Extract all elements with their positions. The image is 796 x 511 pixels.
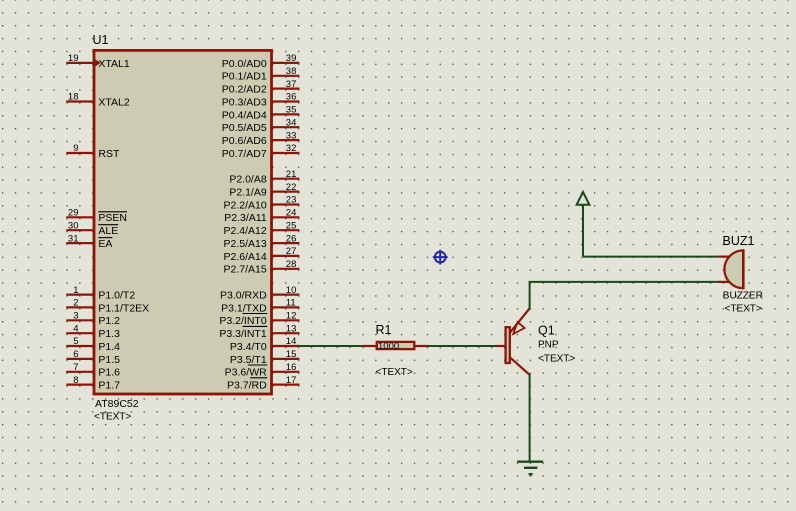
U1 pin 35 (P0.4/AD4) [222, 105, 300, 122]
svg-text:29: 29 [68, 208, 79, 219]
wire: Q1 emitter up to buzzer net corner [529, 282, 531, 310]
svg-text:P3.3/INT1: P3.3/INT1 [219, 328, 266, 340]
U1 pin 4 (P1.3) [66, 323, 120, 340]
svg-text:1000: 1000 [378, 341, 399, 352]
svg-text:BUZ1: BUZ1 [723, 234, 755, 248]
wire: U1 P3.4/T0 to R1 left [299, 345, 364, 347]
schematic origin marker (blue crosshair) [433, 250, 448, 265]
U1 pin 14 (P3.4/T0) [230, 336, 299, 353]
U1 pin 8 (P1.7) [66, 375, 120, 392]
svg-text:AT89C52: AT89C52 [95, 398, 139, 410]
svg-text:P2.1/A9: P2.1/A9 [229, 187, 267, 199]
U1 pin 17 (P3.7/RD) [227, 375, 299, 392]
svg-text:P2.3/A11: P2.3/A11 [224, 212, 267, 224]
svg-text:P2.0/A8: P2.0/A8 [229, 174, 267, 186]
svg-text:31: 31 [68, 233, 79, 244]
svg-text:P2.5/A13: P2.5/A13 [223, 238, 266, 250]
Q1 property text placeholder [538, 354, 575, 365]
svg-text:9: 9 [73, 143, 78, 154]
svg-text:5: 5 [73, 336, 78, 347]
U1 pin 23 (P2.2/A10) [223, 195, 299, 212]
svg-text:P1.1/T2EX: P1.1/T2EX [98, 302, 149, 314]
Q1 designator label [538, 324, 555, 338]
wire: Q1 collector down to ground [529, 374, 531, 462]
U1 pin 22 (P2.1/A9) [229, 182, 299, 199]
svg-text:P0.4/AD4: P0.4/AD4 [222, 109, 267, 121]
svg-text:39: 39 [286, 53, 297, 64]
U1 pin 9 (RST) [66, 143, 120, 160]
svg-text:XTAL1: XTAL1 [98, 58, 129, 70]
svg-text:P1.0/T2: P1.0/T2 [98, 290, 135, 302]
U1 pin 25 (P2.4/A12) [223, 220, 299, 237]
svg-text:26: 26 [286, 233, 297, 244]
svg-text:1: 1 [73, 285, 78, 296]
U1 pin 15 (P3.5/T1) [230, 349, 299, 366]
U1 pin 16 (P3.6/WR) [225, 362, 300, 379]
svg-text:P1.4: P1.4 [98, 341, 120, 353]
svg-text:11: 11 [286, 298, 296, 309]
svg-text:P1.2: P1.2 [98, 315, 120, 327]
svg-text:R1: R1 [376, 323, 392, 337]
svg-text:P3.2/INT0: P3.2/INT0 [219, 315, 266, 327]
svg-text:<TEXT>: <TEXT> [725, 304, 762, 315]
svg-text:U1: U1 [93, 33, 109, 47]
svg-text:4: 4 [73, 323, 78, 334]
svg-text:P3.7/RD: P3.7/RD [227, 380, 267, 392]
svg-text:34: 34 [286, 118, 297, 129]
svg-text:P3.0/RXD: P3.0/RXD [220, 290, 267, 302]
svg-text:P0.6/AD6: P0.6/AD6 [222, 135, 267, 147]
U1 pin 12 (P3.2/INT0) [219, 311, 299, 328]
svg-text:28: 28 [286, 259, 297, 270]
svg-text:P0.7/AD7: P0.7/AD7 [222, 148, 267, 160]
svg-text:23: 23 [286, 195, 297, 206]
Q1 emitter pin with PNP arrow [510, 308, 530, 334]
svg-text:<TEXT>: <TEXT> [94, 412, 131, 423]
U1 pin 38 (P0.1/AD1) [222, 66, 300, 83]
U1 designator label [93, 33, 109, 47]
svg-text:P3.1/TXD: P3.1/TXD [221, 302, 267, 314]
svg-text:10: 10 [286, 285, 297, 296]
svg-text:P2.7/A15: P2.7/A15 [223, 264, 266, 276]
wire: power symbol to BUZ1 top pin [583, 256, 720, 258]
U1 pin 27 (P2.6/A14) [223, 246, 299, 263]
svg-text:P3.5/T1: P3.5/T1 [230, 354, 267, 366]
Q1 collector pin [510, 357, 530, 374]
svg-text:PNP: PNP [538, 340, 559, 351]
ground symbol [517, 462, 543, 475]
svg-text:P0.0/AD0: P0.0/AD0 [222, 58, 267, 70]
svg-text:30: 30 [68, 220, 79, 231]
svg-text:8: 8 [73, 375, 78, 386]
svg-text:17: 17 [286, 375, 297, 386]
svg-text:P0.1/AD1: P0.1/AD1 [222, 71, 267, 83]
svg-text:7: 7 [73, 362, 78, 373]
resistor R1 body [363, 342, 428, 349]
R1 designator label [376, 323, 392, 337]
svg-text:15: 15 [286, 349, 297, 360]
svg-text:33: 33 [286, 130, 297, 141]
U1 value label AT89C52 [95, 398, 139, 410]
svg-text:2: 2 [73, 298, 78, 309]
U1 pin 18 (XTAL2) [66, 92, 130, 109]
svg-text:37: 37 [286, 79, 297, 90]
svg-text:12: 12 [286, 311, 297, 322]
svg-text:19: 19 [68, 53, 79, 64]
svg-text:P1.3: P1.3 [98, 328, 120, 340]
U1 pin 29 (PSEN) [66, 208, 127, 225]
svg-text:36: 36 [286, 92, 297, 103]
R1 value 1000 [378, 341, 399, 352]
U1 pin 33 (P0.6/AD6) [222, 130, 300, 147]
svg-text:P1.7: P1.7 [98, 380, 120, 392]
svg-text:24: 24 [286, 208, 297, 219]
buzzer BUZ1 body [719, 249, 744, 289]
R1 property text placeholder [376, 367, 413, 378]
svg-text:21: 21 [286, 169, 297, 180]
U1 pin 26 (P2.5/A13) [223, 233, 299, 250]
U1 pin 37 (P0.2/AD2) [222, 79, 300, 96]
wire: R1 right to Q1 base [428, 345, 498, 347]
svg-text:<TEXT>: <TEXT> [376, 367, 413, 378]
svg-text:BUZZER: BUZZER [723, 291, 763, 302]
U1 pin 30 (ALE) [66, 220, 118, 237]
U1 pin 24 (P2.3/A11) [224, 208, 299, 225]
svg-text:13: 13 [286, 323, 297, 334]
IC U1 AT89C52 body [94, 50, 272, 394]
U1 property text placeholder [94, 412, 131, 423]
svg-text:ALE: ALE [98, 225, 118, 237]
U1 pin 10 (P3.0/RXD) [220, 285, 299, 302]
svg-text:P2.2/A10: P2.2/A10 [223, 199, 266, 211]
svg-text:18: 18 [68, 92, 79, 103]
svg-text:PSEN: PSEN [98, 212, 127, 224]
svg-text:25: 25 [286, 220, 297, 231]
U1 pin 21 (P2.0/A8) [229, 169, 299, 186]
U1 pin 6 (P1.5) [66, 349, 120, 366]
Q1 value PNP [538, 340, 559, 351]
svg-text:32: 32 [286, 143, 297, 154]
U1 pin 1 (P1.0/T2) [66, 285, 135, 302]
U1 pin 3 (P1.2) [66, 311, 120, 328]
svg-text:14: 14 [286, 336, 297, 347]
svg-text:3: 3 [73, 311, 78, 322]
svg-text:P0.2/AD2: P0.2/AD2 [222, 84, 267, 96]
svg-text:27: 27 [286, 246, 297, 257]
svg-text:16: 16 [286, 362, 297, 373]
svg-text:P3.6/WR: P3.6/WR [225, 367, 267, 379]
wire: horizontal to BUZ1 bottom pin [529, 281, 720, 283]
svg-text:Q1: Q1 [538, 324, 555, 338]
svg-text:P3.4/T0: P3.4/T0 [230, 341, 267, 353]
U1 pin 5 (P1.4) [66, 336, 120, 353]
transistor Q1 base bar [506, 327, 510, 363]
svg-text:22: 22 [286, 182, 297, 193]
power symbol (arrow up) [577, 192, 590, 257]
svg-text:<TEXT>: <TEXT> [538, 354, 575, 365]
U1 pin 19 (XTAL1) [66, 53, 130, 70]
U1 pin 39 (P0.0/AD0) [222, 53, 300, 70]
svg-text:P0.5/AD5: P0.5/AD5 [222, 122, 267, 134]
U1 pin 32 (P0.7/AD7) [222, 143, 300, 160]
U1 pin 7 (P1.6) [66, 362, 120, 379]
Q1 base pin [497, 345, 505, 347]
U1 pin 11 (P3.1/TXD) [221, 298, 299, 315]
svg-text:RST: RST [98, 148, 120, 160]
BUZ1 property text placeholder [725, 304, 762, 315]
svg-text:38: 38 [286, 66, 297, 77]
U1 pin 34 (P0.5/AD5) [222, 118, 300, 135]
U1 pin 2 (P1.1/T2EX) [66, 298, 149, 315]
U1 pin 28 (P2.7/A15) [223, 259, 299, 276]
svg-text:P1.6: P1.6 [98, 367, 120, 379]
U1 pin 13 (P3.3/INT1) [219, 323, 299, 340]
svg-text:P1.5: P1.5 [98, 354, 120, 366]
svg-text:P2.4/A12: P2.4/A12 [223, 225, 266, 237]
svg-text:EA: EA [98, 238, 112, 250]
U1 pin 36 (P0.3/AD3) [222, 92, 300, 109]
svg-text:6: 6 [73, 349, 78, 360]
BUZ1 value BUZZER [723, 291, 763, 302]
svg-text:35: 35 [286, 105, 297, 116]
svg-text:XTAL2: XTAL2 [98, 96, 129, 108]
U1 pin 31 (EA) [66, 233, 112, 250]
svg-text:P0.3/AD3: P0.3/AD3 [222, 96, 267, 108]
BUZ1 designator label [723, 234, 755, 248]
svg-text:P2.6/A14: P2.6/A14 [223, 251, 266, 263]
